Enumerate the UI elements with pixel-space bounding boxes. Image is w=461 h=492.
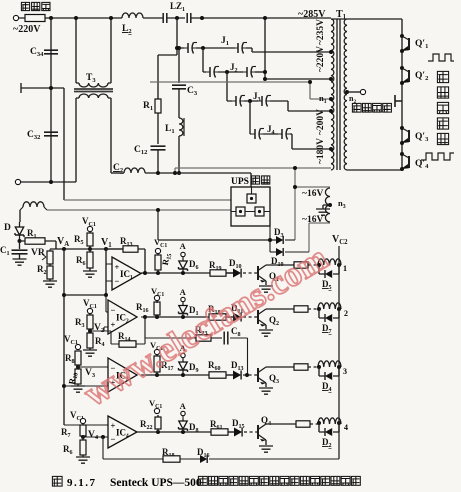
bus branch y=295 to V1 column	[64, 294, 106, 296]
wire T3 left top lead to mains row	[75, 18, 77, 55]
wire ladder column x=177	[176, 18, 178, 55]
zener D8	[182, 419, 184, 431]
svg-text:IC₁: IC₁	[120, 269, 133, 279]
node fuse output junction	[49, 16, 53, 20]
relay coil J1	[318, 259, 341, 265]
svg-text:9.1.7: 9.1.7	[67, 477, 97, 489]
svg-text:1: 1	[343, 264, 347, 273]
earth tap bar at y=88	[21, 83, 64, 93]
tap n2 battery positive	[345, 90, 349, 94]
svg-text:3: 3	[343, 367, 347, 376]
wire branch to R1 column	[158, 55, 177, 99]
Q4 collector row	[266, 423, 296, 425]
relay coil J2	[318, 303, 341, 309]
svg-text:~285V: ~285V	[298, 9, 326, 20]
resistor R6 lower	[80, 440, 86, 455]
resistor R10	[75, 369, 81, 384]
transistor Q'4	[400, 152, 404, 156]
main comparator bus x=64	[63, 249, 65, 425]
svg-text:~200V: ~200V	[316, 109, 326, 135]
svg-text:A: A	[180, 287, 187, 297]
svg-text:IC₂: IC₂	[116, 312, 129, 322]
svg-text:4: 4	[344, 423, 348, 432]
transformer B3 winding	[325, 188, 330, 222]
IC4 output row y=432	[137, 431, 234, 433]
svg-text:−: −	[111, 434, 116, 444]
Q2 collector row	[266, 308, 294, 310]
IC2 output row y=317	[145, 316, 233, 318]
dashed base wire Q1	[243, 272, 257, 274]
square wave symbol 2	[421, 153, 454, 160]
zener D9	[182, 359, 184, 373]
svg-text:~235V: ~235V	[316, 19, 326, 45]
wire y=168 rail to T1 bottom	[175, 168, 331, 173]
row D: contact and relay contact J3	[235, 96, 237, 106]
battery tap bar	[395, 95, 402, 107]
wire T3 left bottom lead to y=182	[75, 98, 77, 182]
divider R6 upper	[87, 252, 93, 268]
svg-text:UPS: UPS	[231, 177, 249, 187]
wire T3 right bottom lead to y=173	[110, 98, 112, 173]
svg-text:2: 2	[344, 309, 348, 318]
divider VC1 R8	[75, 344, 80, 349]
wire column x=227 to row D	[226, 72, 228, 101]
transistor Q'1	[400, 34, 404, 38]
row B: contact and relay contact J1	[187, 43, 189, 53]
svg-text:−: −	[115, 276, 120, 286]
bottom secondary wire	[347, 169, 402, 171]
wire column x=203 to row C	[202, 48, 204, 72]
flyback diode D4	[319, 367, 339, 376]
series coil on sense line	[23, 202, 44, 207]
flyback diode D7	[319, 309, 339, 318]
red watermark www.elecfans.com	[77, 238, 334, 414]
wire direct 220V column x=265	[265, 18, 331, 79]
resistor R4	[87, 333, 93, 348]
wire bottom filter row y=173 to UPS box	[145, 173, 251, 187]
IC1 output row y=273	[141, 272, 233, 274]
wire column x=250 to row E	[249, 101, 251, 134]
terminal circle y=182	[15, 179, 20, 184]
transformer T1 secondary winding	[344, 19, 347, 170]
capacitor C row A second	[187, 13, 191, 23]
IC3 output row y=375	[141, 374, 233, 376]
socket pin left	[236, 207, 245, 216]
feedback row y=459 R18 D16	[103, 458, 163, 460]
op-amp IC4	[83, 436, 108, 438]
gray rail y=200 to UPS box	[64, 199, 231, 201]
transistor Q'2	[400, 66, 404, 70]
zener D6	[182, 258, 184, 272]
svg-text:~220V: ~220V	[13, 24, 41, 35]
svg-text:−: −	[111, 305, 116, 315]
svg-text:VR: VR	[31, 248, 45, 258]
gray sense line y=82 to n1 tap	[150, 82, 331, 99]
svg-text:A: A	[180, 401, 187, 411]
fuse F (保险丝) and AC input terminal	[13, 15, 18, 20]
socket pin top	[247, 194, 256, 203]
svg-text:+: +	[115, 262, 120, 272]
op-amp IC2	[90, 327, 108, 331]
svg-text:+: +	[111, 421, 116, 431]
series resistor row1	[294, 262, 308, 268]
row E: contact and relay contact J4	[254, 129, 256, 139]
flyback diode D2	[319, 423, 339, 432]
center tap ground	[328, 203, 332, 207]
zener D1	[182, 303, 184, 316]
feedback drop to y=459	[102, 437, 104, 459]
transformer T1 core	[337, 19, 340, 170]
relay coil J4	[318, 418, 341, 424]
svg-text:Senteck UPS—500: Senteck UPS—500	[110, 477, 202, 489]
node VA row y=249	[50, 248, 123, 250]
transformer T1 primary winding	[331, 19, 334, 170]
svg-text:IC₄: IC₄	[116, 427, 129, 437]
relay coil J3	[318, 361, 341, 367]
wire x=64 down to y=200 rail	[63, 88, 65, 200]
op-amp IC3	[78, 366, 108, 368]
wire T3 right top lead	[110, 18, 112, 55]
svg-text:~16V: ~16V	[302, 215, 323, 225]
svg-text:~16V: ~16V	[302, 189, 323, 199]
top row wire to right rail	[331, 18, 402, 20]
caption	[52, 476, 62, 486]
capacitor C row A first	[163, 13, 167, 23]
Q1 collector to relay coil	[266, 264, 294, 266]
wires inside box	[231, 187, 270, 212]
transistor Q'3	[400, 126, 404, 130]
row C: contact and relay contact J2	[209, 67, 211, 77]
svg-text:~180V: ~180V	[316, 138, 326, 164]
rectifier feed line y=240 from sense rail	[156, 208, 160, 212]
op-amp IC1	[106, 264, 112, 281]
inductor L2	[122, 13, 143, 18]
gray rail y=210 to UPS box	[47, 209, 231, 211]
right rail x=402	[401, 19, 403, 170]
wire main left vertical x=51	[50, 18, 52, 182]
socket pin right	[255, 207, 264, 216]
capacitor C3 column	[178, 48, 180, 83]
Q3 collector row	[266, 366, 294, 368]
svg-text:+: +	[111, 319, 116, 329]
square wave symbol 1	[428, 54, 454, 61]
label inverter drive vertical	[437, 71, 448, 82]
svg-text:D: D	[4, 223, 11, 233]
flyback diode D5	[319, 265, 339, 274]
svg-text:A: A	[180, 241, 187, 251]
svg-text:~220V: ~220V	[316, 46, 326, 72]
